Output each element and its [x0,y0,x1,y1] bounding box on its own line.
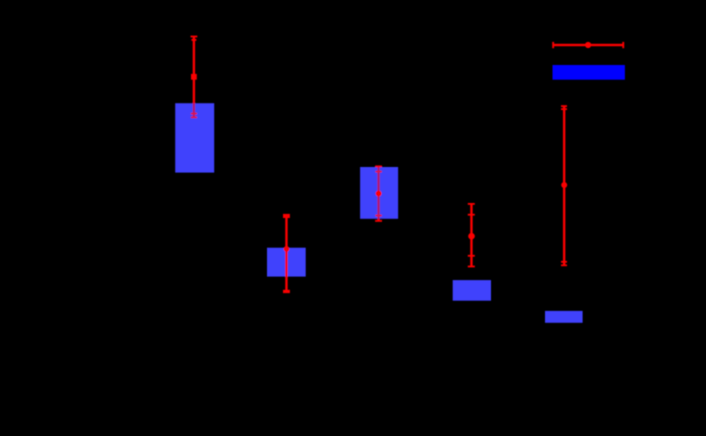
marker group 3 (circle) [376,191,382,197]
legend errorbar line (horizontal red) [553,44,623,46]
errorbar group 2 top caps (merged pair) [283,214,290,218]
errorbar group 3 line inside box (magenta) [377,167,379,219]
errorbar group 5 line (red) [563,106,565,266]
box group 4 [453,280,491,301]
errorbar group 4 line (red) [470,204,472,267]
marker group 4 (circle) [468,233,475,240]
box group 1 [175,103,214,172]
errorbar group 5 top inner cap [561,108,567,110]
legend box patch (pure blue) [553,65,625,80]
errorbar group 3 bottom outer cap [375,220,382,222]
errorbar group 1 bottom inner cap [191,113,197,115]
legend marker (circle) [585,42,591,48]
errorbar group 4 top outer cap [468,203,475,205]
marker group 2 (circle) [284,246,290,252]
errorbar group 4 bottom outer cap [468,266,475,268]
errorbar group 1 top inner cap [191,39,196,41]
errorbar group 5 bottom outer cap [561,264,567,266]
marker group 5 (circle) [561,182,567,188]
errorbar group 3 line below box (red) [377,219,379,221]
errorbar group 3 top outer cap [375,165,382,167]
box group 2 [267,248,306,277]
errorbar group 3 top inner cap [375,171,381,173]
errorbar group 2 bottom caps (merged pair) [283,290,290,293]
errorbar group 5 bottom inner cap [561,261,567,263]
errorbar group 3 bottom inner cap [375,215,381,217]
errorbar group 4 top inner cap [468,214,475,216]
errorbar group 4 bottom inner cap [468,255,475,257]
marker group 1 (square) [191,74,197,80]
errorbar group 1 bottom outer cap [191,116,197,118]
errorbar group 5 top outer cap [561,105,567,107]
errorbar group 1 line above box (red) [193,37,195,104]
legend errorbar left cap [552,42,554,48]
legend errorbar right cap [622,42,624,48]
errorbar group 1 top outer cap [191,36,198,38]
box group 5 [545,311,583,323]
box group 3 [360,167,398,219]
errorbar group 1 line inside box (magenta) [193,103,195,117]
errorbar group 2 line (red, drawn over box) [285,214,287,292]
